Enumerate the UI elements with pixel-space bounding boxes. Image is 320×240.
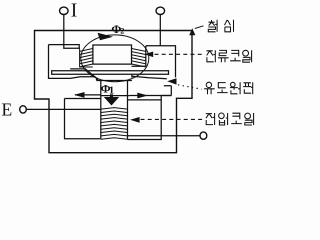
top core pole lower-left horn (70, 69, 96, 81)
flux phi2 arrow (98, 33, 114, 41)
leader dashed line (current coil) (155, 53, 205, 55)
bottom core centre limb left edge (100, 81, 102, 139)
slot line under disc (right) (132, 76, 167, 79)
flux phi1 left arrow (74, 92, 85, 98)
flux phi1 centre arrow stub (110, 94, 113, 97)
bottom terminal circle (200, 132, 207, 139)
top yoke right segment (146, 46, 176, 78)
leader arrow (voltage coil) (130, 117, 140, 123)
svg-text:1: 1 (109, 84, 115, 96)
leader dotted line (induction disc) (178, 85, 202, 89)
flux phi2 ellipse (81, 35, 149, 82)
svg-text:I: I (71, 1, 78, 22)
bottom core left window (65, 99, 101, 139)
top core centre pole (93, 45, 132, 64)
svg-text:2: 2 (120, 26, 124, 36)
wire from terminal E to voltage coil (26, 108, 101, 110)
current coil right winding hatch (132, 49, 146, 67)
bottom core right window (128, 100, 162, 140)
wire from terminal I to current coil (64, 15, 80, 49)
top yoke left segment (49, 45, 80, 49)
top core left inner edge and left slot bottom (49, 45, 96, 79)
leader arrow to core corner (cheolsim) (189, 28, 195, 35)
outer iron-core boundary (35, 31, 193, 153)
label jeonryukoil (current coil) (207, 50, 252, 62)
label yudowonpan (induction disc) (204, 82, 253, 94)
terminal I circle (60, 7, 69, 14)
svg-text:E: E (2, 100, 13, 120)
leader dashed line (voltage coil) (141, 118, 205, 120)
leader arrow (induction disc) (167, 78, 176, 84)
terminal E circle (20, 106, 27, 113)
flux phi1 right arrow (137, 93, 148, 99)
bottom core right limb face (161, 86, 171, 100)
label jeonapkoil (voltage coil) (206, 113, 254, 125)
label cheolsim (iron core) (208, 20, 233, 32)
wire from voltage coil to bottom terminal (128, 135, 201, 137)
bottom core pole shoe top (97, 75, 132, 81)
induction disc (52, 71, 169, 74)
leader arrow (current coil) (145, 52, 154, 58)
voltage coil winding hatch (101, 108, 128, 140)
bottom core centre limb right edge (127, 81, 129, 140)
current coil left winding hatch (80, 49, 93, 67)
flux phi1 right gap line (130, 95, 172, 97)
terminal (top right) circle (156, 7, 165, 14)
flux phi1 left gap line (75, 94, 130, 97)
flux phi1 centre down arrow (104, 97, 119, 106)
right winding edge and bottom (132, 46, 146, 67)
wire from top-right terminal to core (159, 15, 161, 46)
